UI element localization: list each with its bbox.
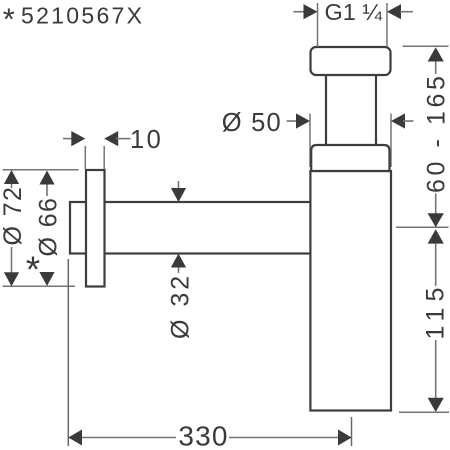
svg-text:Ø 50: Ø 50	[222, 109, 282, 137]
top cap nut	[311, 47, 391, 75]
330 dimension extension lines	[68, 259, 351, 446]
diameter 66 label	[35, 197, 63, 257]
svg-text:60 - 165: 60 - 165	[423, 72, 450, 193]
diameter 32 dimension	[171, 181, 186, 273]
10 label	[130, 126, 163, 154]
diameter 50 dimension arrows	[287, 113, 414, 128]
G1 1/4 label	[325, 0, 383, 25]
svg-text:330: 330	[178, 421, 228, 450]
10 dimension arrows	[63, 131, 131, 146]
60-165 label	[423, 72, 450, 193]
diameter 32 label	[167, 273, 195, 339]
svg-text:Ø 72: Ø 72	[0, 186, 27, 246]
part number 5210567X	[21, 2, 144, 28]
inlet tube	[326, 74, 376, 146]
wall flange	[86, 170, 105, 287]
diameter 72 extension lines	[3, 170, 79, 287]
horizontal outlet pipe	[70, 202, 311, 254]
G1 1/4 dimension extension lines	[318, 3, 388, 47]
svg-text:Ø 66: Ø 66	[35, 197, 63, 257]
part number asterisk	[3, 1, 15, 36]
diameter 50 label	[222, 109, 282, 137]
10 dimension extension lines	[85, 146, 104, 169]
trap body	[310, 171, 391, 411]
115 dimension line and arrows	[428, 229, 444, 412]
extension line for diameter 50 left	[309, 114, 311, 168]
diameter 66 dimension	[39, 171, 54, 287]
115 bottom extension line	[399, 411, 449, 413]
extension line for diameter 50 right	[390, 114, 392, 168]
G1 1/4 dimension arrows	[294, 4, 414, 19]
60-165 dimension extension lines	[396, 46, 449, 227]
115 label	[422, 282, 450, 340]
asterisk footnote mark	[26, 249, 40, 290]
diameter 72 dimension	[4, 170, 19, 286]
slip nut	[311, 145, 389, 171]
60-165 dimension line and arrows	[428, 47, 444, 227]
svg-text:10: 10	[130, 126, 163, 154]
svg-text:115: 115	[422, 282, 450, 340]
svg-text:5210567X: 5210567X	[21, 2, 144, 28]
svg-text:*: *	[3, 1, 15, 36]
svg-text:G1 ¼: G1 ¼	[325, 0, 383, 25]
svg-text:Ø 32: Ø 32	[167, 273, 195, 339]
330 label	[178, 421, 228, 450]
svg-text:*: *	[26, 249, 40, 290]
330 dimension line and arrows	[68, 430, 351, 446]
diameter 72 label	[0, 186, 27, 246]
